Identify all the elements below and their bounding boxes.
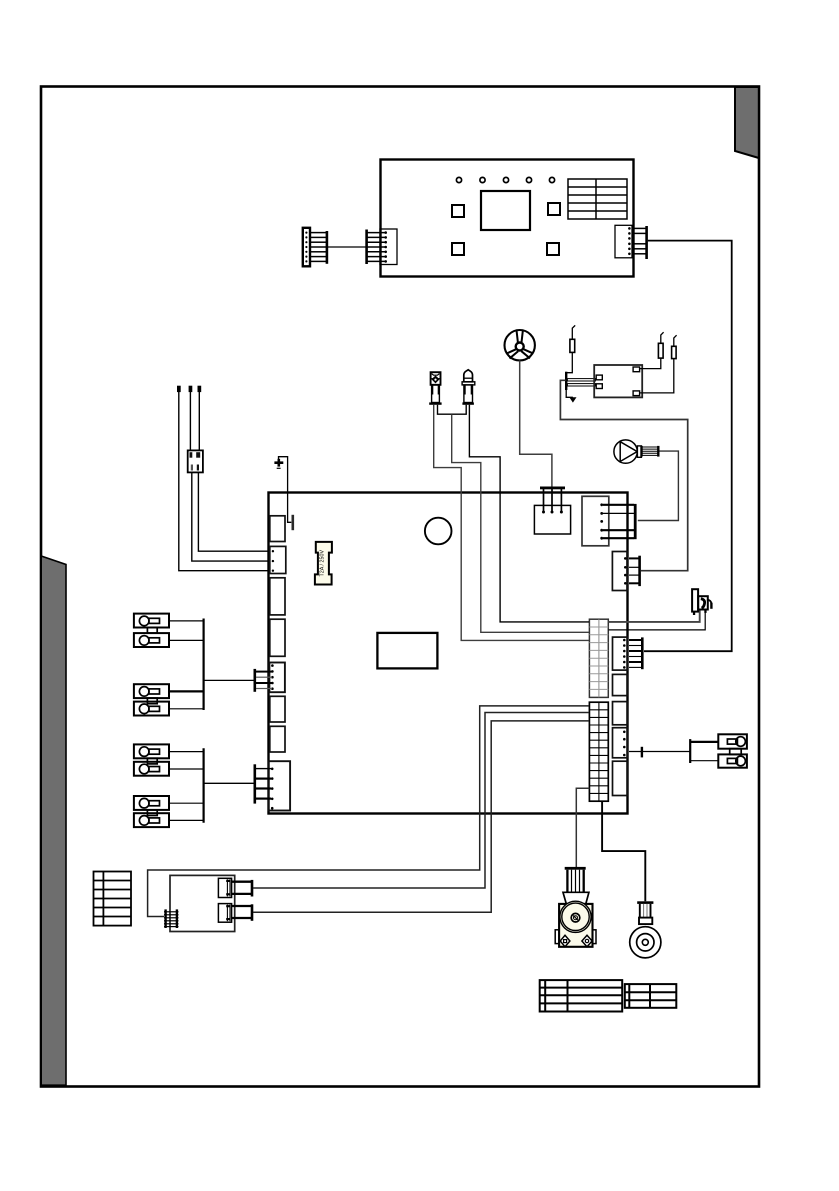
wire TB1 to pressure switch (upper) [609, 610, 700, 622]
main PCB U2 [269, 493, 628, 814]
faston terminal pair group4 [134, 796, 169, 827]
fan M1 [505, 330, 535, 360]
fuse F1 T2A/250V [315, 542, 332, 585]
wires group4 to bus2 [169, 802, 204, 804]
wire fan to PCB connector J9 [520, 360, 552, 487]
button S1 [452, 205, 464, 217]
spark electrode E1 [658, 332, 663, 358]
PCB edge connector J5 [269, 663, 285, 693]
wire cap B down [189, 392, 191, 450]
LED row D1-D5 [456, 177, 554, 182]
wire E2 to transformer [640, 359, 674, 393]
NTC sensor S6 [462, 370, 475, 404]
gas valve Y1 [555, 867, 596, 947]
button S2 [548, 203, 560, 215]
transformer output socket 1 [218, 878, 231, 897]
jumper pin near top-left [288, 492, 292, 522]
plug ladder for J5 [255, 669, 272, 692]
PCB edge connector J4 [270, 619, 285, 656]
wire cap C down [198, 392, 200, 450]
wire E1 to transformer [640, 358, 661, 369]
wire pump M4 to PCB connector J10b [638, 451, 679, 520]
wire probe connector to J2 pin1 [198, 473, 269, 552]
probe connector block [188, 450, 203, 472]
PCB edge connector J7 [270, 726, 285, 752]
detection electrode E3 [567, 325, 575, 372]
wires group2 to bus1 [169, 690, 204, 692]
plug ladder for J8 [255, 764, 271, 803]
wire P10 to X10 [328, 246, 366, 248]
legend table bottom (right block) [625, 984, 677, 1008]
PCB right connector J12 (6-pin) [613, 637, 643, 670]
transformer plug ladder [164, 909, 179, 928]
PCB edge connector J1 [270, 516, 285, 542]
PCB edge connector J8 [269, 761, 291, 810]
plug prong 2 [567, 384, 595, 386]
wire ignition plug to PCB connector J11 [560, 380, 687, 570]
legend table bottom-left [94, 872, 132, 926]
wire J15 to right faston pair [629, 739, 718, 763]
ignition plug bar [565, 372, 567, 390]
wire cap A to J2 pin3 [179, 392, 269, 571]
PCB right connector J16 [613, 761, 628, 795]
wire transformer supply to TB2 (outer) [148, 706, 589, 917]
PCB edge connector J2 (probe input) [270, 546, 286, 573]
spark electrode E2 [672, 335, 677, 358]
terminal strip TB1 on PCB [589, 619, 608, 697]
wire S5 left lead to PCB strip TB1 [434, 405, 589, 641]
plug prong 1 [567, 379, 595, 381]
wire socket2 to TB2 [253, 721, 589, 912]
PCB top connector J9 (fan) [534, 487, 570, 535]
wire probe connector to J2 pin2 [192, 473, 269, 561]
transformer output socket 2 [218, 904, 231, 923]
wire TB2 to water pressure sensor [602, 801, 645, 901]
probe plug cap A [177, 386, 181, 392]
probe plug cap C [198, 386, 202, 392]
button S3 [452, 243, 464, 255]
wires group3 to bus2 [169, 751, 204, 753]
plug P10 (remote display plug) [303, 228, 327, 266]
LCD display [481, 191, 530, 230]
bus2 vertical [203, 748, 205, 823]
relay circle on PCB [425, 518, 452, 545]
wires group1 to bus1 [169, 620, 204, 622]
ground at ignition plug [566, 390, 576, 403]
connector X10 on board left edge [367, 229, 397, 265]
PCB right connector J13 [613, 674, 628, 695]
legend table bottom (left block) [540, 980, 623, 1011]
wire S5/S6 common lead [438, 405, 467, 414]
pump / diverter valve M4 [614, 440, 658, 463]
chassis ground top-left [274, 457, 287, 492]
faston terminal pair group3 [134, 744, 169, 775]
plug shell 2 [232, 904, 252, 921]
wire bus2 to J8 ladder [204, 782, 254, 784]
connector X11 on board right edge [615, 225, 647, 259]
faston terminal pair group2 [134, 684, 169, 715]
pressure switch SW1 [692, 589, 711, 615]
wire common T to PCB strip TB1 [452, 414, 589, 632]
wire TB2 to gas valve [576, 788, 589, 867]
right faston terminal pair [718, 734, 747, 767]
wire S6 right lead to PCB strip TB1 [469, 405, 589, 622]
flow sensor S5 [429, 372, 441, 403]
wire socket1 to TB2 [253, 713, 589, 889]
PCB top connector J10 (5-pin) [582, 496, 635, 546]
plug shell 1 [232, 880, 252, 897]
svg-text:T2A / 250V: T2A / 250V [320, 549, 326, 576]
gray page strip left [41, 556, 66, 1085]
control board U1 [381, 160, 634, 277]
water pressure sensor B1 [630, 901, 661, 958]
supply transformer T1 block [170, 875, 235, 931]
wire X11 to PCB connector J10 [644, 241, 732, 652]
wire bus1 to J5 ladder [204, 679, 254, 681]
PCB edge connector J6 [270, 696, 285, 722]
gray page tab top-right [735, 87, 759, 158]
PCB right connector J11 (4-pin) [612, 552, 639, 591]
faston terminal pair group1 [134, 614, 169, 647]
button S4 [547, 243, 559, 255]
PCB right connector J14 [613, 702, 628, 725]
label table on board [568, 179, 627, 219]
probe plug cap B [189, 386, 193, 392]
bus1 vertical [203, 619, 205, 711]
PCB right connector J15 [613, 728, 628, 758]
PCB edge connector J3 [270, 578, 285, 615]
wire TB1 to pressure switch (lower) [609, 612, 706, 630]
ignition transformer A1 [594, 365, 642, 397]
relay rectangle on PCB [377, 633, 437, 669]
terminal strip TB2 on PCB [589, 702, 608, 801]
